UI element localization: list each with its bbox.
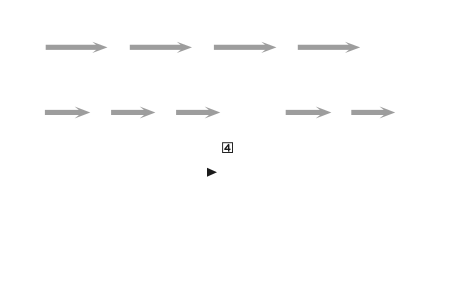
arrow row2-1	[45, 106, 90, 118]
play triangle	[207, 168, 217, 177]
arrow row2-4	[286, 106, 332, 118]
numbered box 4	[223, 143, 233, 153]
arrow row1-4	[298, 42, 360, 53]
arrow row1-2	[130, 42, 192, 53]
arrow row1-1	[46, 42, 108, 53]
arrow row1-3	[214, 42, 277, 53]
arrow row2-3	[176, 106, 220, 118]
arrow row2-5	[351, 106, 395, 118]
arrow row2-2	[111, 106, 155, 118]
